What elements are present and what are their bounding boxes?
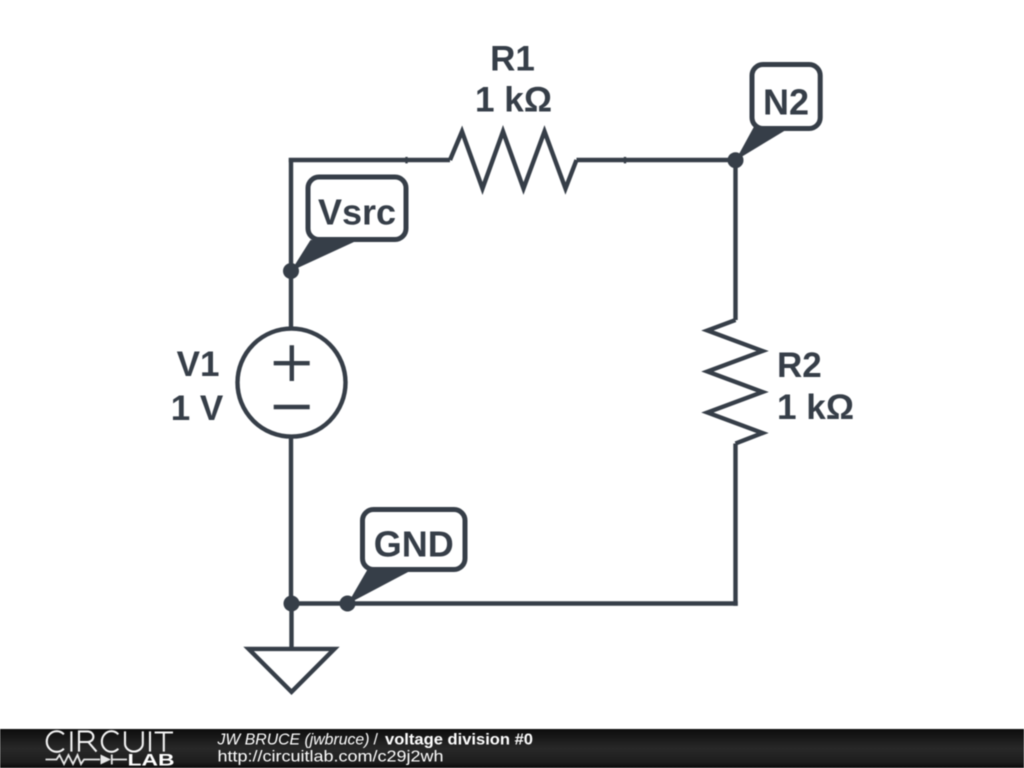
ground stub wire — [289, 601, 293, 649]
wire right vertical lower (R2 to bottom) — [733, 444, 737, 606]
node label box Vsrc — [308, 177, 406, 240]
callout pointer GND — [348, 570, 411, 605]
footer bar — [0, 729, 1024, 768]
wire joint nub top-left — [405, 157, 407, 164]
svg-text:Vsrc: Vsrc — [318, 192, 396, 233]
wire bottom horizontal — [289, 601, 737, 605]
wire right vertical upper (N2 to R2) — [733, 158, 737, 320]
svg-text:1 kΩ: 1 kΩ — [777, 388, 854, 427]
callout pointer N2 — [736, 127, 788, 161]
wire left vertical upper (top wire to V1) — [289, 158, 293, 327]
V1 plus sign — [274, 345, 310, 381]
svg-text:N2: N2 — [763, 82, 809, 123]
svg-text:1 V: 1 V — [171, 389, 224, 428]
svg-text:GND: GND — [374, 524, 454, 565]
resistor R1 — [450, 132, 577, 189]
voltage source V1 circle — [238, 329, 346, 437]
node label box N2 — [752, 65, 820, 129]
ground symbol triangle — [249, 649, 335, 692]
svg-text:/: / — [374, 732, 379, 749]
resistor R2 — [708, 320, 763, 444]
svg-text:R2: R2 — [777, 346, 822, 385]
CircuitLab logo resistor-diode glyph — [46, 755, 128, 765]
node junction dot GND — [340, 596, 356, 612]
svg-text:R1: R1 — [490, 40, 535, 79]
node junction dot N2 — [728, 152, 744, 168]
svg-text:http://circuitlab.com/c29j2wh: http://circuitlab.com/c29j2wh — [218, 749, 444, 766]
node junction dot bottom-left — [284, 596, 300, 612]
svg-text:LAB: LAB — [128, 751, 175, 768]
wire left vertical lower (V1 to bottom wire) — [289, 439, 293, 606]
CircuitLab logo CIRCUIT lettering — [47, 731, 173, 752]
svg-text:JW BRUCE (jwbruce): JW BRUCE (jwbruce) — [217, 732, 370, 749]
svg-text:voltage division #0: voltage division #0 — [385, 732, 533, 749]
wire top horizontal right (R1 to node N2) — [577, 158, 738, 162]
callout pointer Vsrc — [291, 240, 355, 271]
wire joint nub top-right — [624, 157, 626, 164]
node junction dot Vsrc — [283, 263, 299, 279]
V1 minus sign — [274, 405, 310, 409]
svg-text:1 kΩ: 1 kΩ — [475, 81, 552, 120]
wire top horizontal left (Vsrc node to R1) — [289, 158, 450, 162]
node label box GND — [363, 510, 466, 570]
svg-text:V1: V1 — [177, 345, 220, 384]
